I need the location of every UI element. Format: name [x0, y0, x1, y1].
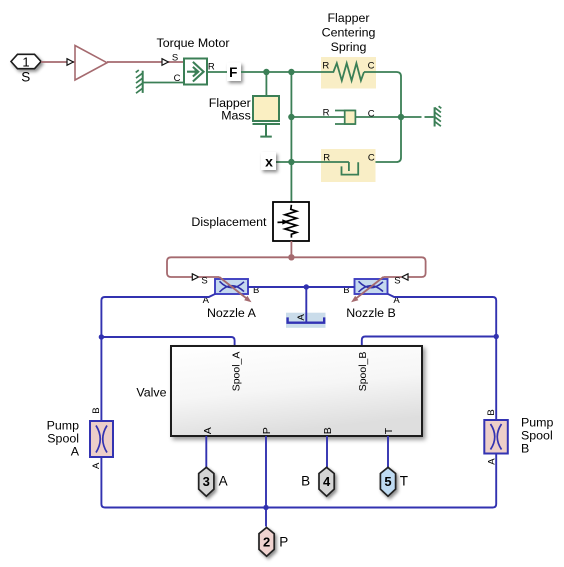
svg-text:B: B: [521, 442, 529, 456]
wire: nozzle B ports bus: [248, 284, 355, 322]
wire: valve P to port 2: [265, 436, 267, 527]
svg-text:P: P: [261, 427, 273, 434]
svg-text:F: F: [229, 65, 237, 80]
svg-text:C: C: [174, 73, 181, 84]
wire: valve A to port 3: [205, 436, 207, 469]
svg-text:Nozzle A: Nozzle A: [207, 306, 257, 320]
wire: nozzle A port A to left hydraulic rail: [99, 294, 216, 421]
wire: displacement output (physical signal): [288, 241, 294, 261]
svg-text:S: S: [201, 275, 207, 286]
svg-text:Centering: Centering: [322, 26, 376, 40]
wire: ground to torque motor C: [143, 82, 184, 84]
svg-text:T: T: [383, 427, 395, 434]
valve spool block: [171, 346, 422, 436]
svg-text:Spool_A: Spool_A: [231, 352, 243, 392]
wire: right rail to valve Spool_B: [362, 337, 496, 347]
wire: spring C to right vertical, down to hard stop C: [358, 72, 401, 162]
svg-text:Flapper: Flapper: [327, 11, 369, 25]
svg-text:1: 1: [22, 54, 29, 69]
svg-text:R: R: [323, 108, 330, 119]
port 2 (P): [259, 528, 288, 557]
wire: damper row: [291, 116, 401, 118]
svg-text:Spring: Spring: [331, 40, 367, 54]
displacement sensor block: [273, 202, 309, 241]
svg-text:S: S: [394, 275, 400, 286]
label: Pump Spool A: [47, 419, 80, 459]
svg-text:T: T: [400, 474, 408, 489]
svg-text:A: A: [487, 458, 498, 465]
label: Flapper Mass: [209, 96, 251, 122]
wire: valve B to port 4: [326, 436, 328, 469]
wire: nozzle B port A to right hydraulic rail: [388, 294, 499, 420]
input port 1 (S): [11, 54, 41, 84]
flapper centering spring: [321, 57, 376, 89]
svg-text:B: B: [301, 474, 310, 489]
svg-text:R: R: [323, 153, 330, 164]
wire: left rail to valve Spool_A: [101, 337, 234, 346]
damper (dashpot): [323, 108, 375, 124]
svg-text:Torque Motor: Torque Motor: [157, 36, 230, 50]
wire: gain to torque motor S: [107, 59, 184, 66]
svg-text:x: x: [265, 153, 273, 169]
wire: valve T to port 5: [387, 436, 389, 469]
label: Flapper Centering Spring: [322, 11, 376, 54]
wire: signal to nozzle B control: [291, 257, 425, 280]
junction: right vertical at damper row: [398, 114, 404, 120]
wire: left vertical mechanical bus: [288, 72, 294, 202]
svg-text:A: A: [202, 427, 214, 434]
hard stop: [321, 149, 376, 182]
wire: branch down to flapper mass: [265, 72, 267, 96]
wire: port 1 to gain (physical signal): [41, 59, 75, 66]
svg-text:S: S: [172, 52, 178, 63]
pump spool A orifice: [90, 407, 113, 469]
port 4 (B): [301, 467, 334, 496]
flapper mass block: [253, 96, 281, 137]
svg-text:R: R: [208, 62, 215, 73]
svg-text:5: 5: [384, 474, 391, 489]
label: Pump Spool B: [521, 416, 553, 456]
torque motor U1: [172, 52, 215, 84]
svg-text:A: A: [91, 462, 102, 469]
wire: right vertical to ground (with gap): [401, 116, 434, 118]
wire: torque motor R to F label: [207, 71, 227, 73]
ground (motor case anchor): [136, 70, 143, 93]
port 3 (A): [199, 467, 228, 496]
svg-text:2: 2: [263, 534, 270, 549]
nozzle A variable orifice: [201, 275, 259, 306]
svg-text:A: A: [71, 445, 80, 459]
svg-text:Displacement: Displacement: [191, 215, 267, 229]
gain amplifier: [75, 46, 107, 81]
pump spool B orifice: [484, 409, 508, 465]
svg-text:Spool: Spool: [47, 432, 79, 446]
svg-text:Pump: Pump: [47, 419, 79, 433]
svg-text:Pump: Pump: [521, 416, 553, 430]
svg-text:A: A: [219, 474, 228, 489]
svg-text:Nozzle B: Nozzle B: [346, 306, 396, 320]
svg-text:Mass: Mass: [221, 108, 251, 122]
svg-text:3: 3: [203, 474, 210, 489]
wire: left rail lower + bottom bus + right rail lower: [101, 454, 496, 511]
svg-text:S: S: [21, 70, 30, 85]
nozzle B variable orifice: [343, 275, 400, 306]
connection label x: [261, 152, 276, 170]
svg-text:Spool_B: Spool_B: [357, 352, 369, 392]
wire: F to spring row with junctions: [241, 69, 321, 75]
ground (spring anchor right): [435, 106, 442, 126]
svg-text:B: B: [322, 427, 334, 434]
svg-text:Spool: Spool: [521, 429, 553, 443]
svg-text:R: R: [322, 61, 329, 72]
svg-text:B: B: [91, 407, 102, 413]
svg-text:B: B: [486, 409, 497, 415]
svg-text:4: 4: [323, 474, 331, 489]
tank (reservoir): [286, 313, 326, 328]
connection label F: [227, 63, 241, 82]
svg-text:C: C: [368, 61, 375, 72]
svg-text:Valve: Valve: [136, 386, 166, 400]
wire: signal to nozzle A control: [167, 257, 291, 280]
svg-text:C: C: [368, 153, 375, 164]
svg-text:P: P: [279, 534, 288, 549]
svg-text:C: C: [368, 108, 375, 119]
wire: x label to hard stop row: [276, 161, 349, 163]
port 5 (T): [380, 467, 408, 496]
